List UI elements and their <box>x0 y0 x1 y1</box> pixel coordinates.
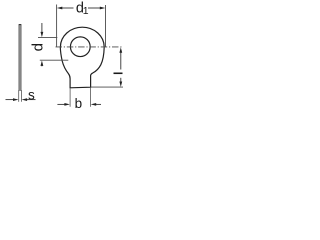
dimension d upper tail <box>41 23 43 33</box>
d dimension bottom extension line <box>40 59 69 61</box>
d1 extension line left <box>56 5 58 47</box>
dimension s right arrow <box>22 98 28 101</box>
b extension line left <box>69 88 71 107</box>
dimension s line left segment <box>6 99 14 101</box>
front view inner hole circle <box>70 37 90 57</box>
b extension line right <box>90 87 92 106</box>
dimension s line right segment <box>27 99 36 101</box>
side view strip top cap <box>19 24 22 26</box>
d1 extension line right <box>105 5 107 47</box>
dimension d1 right arrow <box>100 7 106 10</box>
front view outer outline with tab <box>60 27 104 88</box>
svg-text:s: s <box>28 87 35 102</box>
side view washer strip right line <box>20 25 22 92</box>
svg-text:l: l <box>114 72 126 75</box>
dimension d1 line right segment <box>88 7 100 9</box>
dimension l lower segment with down arrow <box>120 78 122 83</box>
s extension line right <box>20 90 22 102</box>
dimension b right arrow <box>91 103 97 106</box>
dimension b line left segment <box>57 103 64 105</box>
dimension b line right segment <box>96 103 101 105</box>
d dimension top extension line <box>38 37 57 39</box>
dimension d top arrow (pointing down) <box>41 32 44 37</box>
dimension d1 line left segment <box>62 7 74 9</box>
dimension s left arrow <box>13 98 19 101</box>
svg-text:b: b <box>75 96 83 111</box>
dimension l upper segment with up arrow <box>120 52 122 70</box>
horizontal centerline <box>56 46 123 48</box>
dimension d bottom arrow (pointing up) <box>41 61 44 66</box>
svg-text:d: d <box>29 43 46 51</box>
l bottom extension line (tab bottom extended) <box>91 86 123 88</box>
dimension d1 left arrow <box>57 7 63 10</box>
s extension line left <box>18 90 20 102</box>
svg-text:1: 1 <box>83 5 89 17</box>
side view washer strip left line <box>18 25 20 92</box>
dimension b left arrow <box>64 103 70 106</box>
dimension d lower tail <box>41 65 43 66</box>
